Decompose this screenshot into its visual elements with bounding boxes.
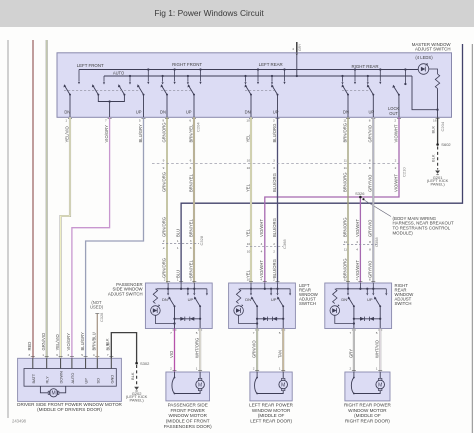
svg-text:VIO/WHT: VIO/WHT xyxy=(393,124,398,142)
svg-text:BLK: BLK xyxy=(130,372,135,380)
lockout switch xyxy=(398,94,400,96)
svg-text:7: 7 xyxy=(253,331,255,335)
passenger window adjust switch U2 internal bus xyxy=(156,288,207,290)
svg-text:6: 6 xyxy=(56,353,58,357)
svg-text:10: 10 xyxy=(247,166,251,170)
svg-text:GRY/VIO: GRY/VIO xyxy=(368,124,373,142)
svg-text:2: 2 xyxy=(350,367,352,371)
svg-text:MODULE): MODULE) xyxy=(393,231,414,236)
left rear window adjust switch U3 alternate contact drops xyxy=(270,289,272,293)
svg-text:9: 9 xyxy=(162,119,164,123)
svg-text:DN: DN xyxy=(162,297,168,302)
svg-text:LEFT REAR DOOR): LEFT REAR DOOR) xyxy=(250,419,292,424)
svg-text:(MIDDLE OF: (MIDDLE OF xyxy=(354,413,381,418)
svg-text:7: 7 xyxy=(105,119,107,123)
left rear window motor M3 pin numbers xyxy=(255,369,259,371)
right rear window adjust switch U4 box xyxy=(325,283,392,329)
wire RED battery feed xyxy=(32,40,34,358)
right rear window adjust switch U4 pin numbers xyxy=(346,281,350,283)
svg-text:8: 8 xyxy=(369,166,371,170)
svg-text:DN: DN xyxy=(341,297,347,302)
svg-text:6: 6 xyxy=(190,159,192,163)
svg-text:BRN/ORG: BRN/ORG xyxy=(342,172,347,192)
bus L2 down-leg to ground junction xyxy=(412,76,438,110)
svg-text:5: 5 xyxy=(81,353,83,357)
wire GRY right rear motor down xyxy=(353,329,355,373)
svg-text:10: 10 xyxy=(247,159,251,163)
wire right front DN to pin xyxy=(166,95,168,117)
left front AUTO contact drops xyxy=(103,76,105,82)
svg-text:PANEL): PANEL) xyxy=(130,398,145,403)
left front auto T join xyxy=(98,95,124,102)
svg-text:GRY/VIO: GRY/VIO xyxy=(368,219,373,237)
driver motor pin stubs xyxy=(32,358,34,368)
svg-text:BRN/BLU: BRN/BLU xyxy=(92,332,97,350)
svg-text:GRN/ORG: GRN/ORG xyxy=(161,217,166,237)
svg-text:TAN: TAN xyxy=(278,350,283,358)
callout line to body main wiring note xyxy=(365,200,392,216)
svg-text:11: 11 xyxy=(344,278,347,282)
wire WHT/ORG passenger motor up xyxy=(199,329,201,373)
left rear window adjust switch U3 DN switch xyxy=(256,305,258,307)
svg-text:AUTO: AUTO xyxy=(113,70,124,75)
svg-text:GRY: GRY xyxy=(348,349,353,358)
svg-text:4: 4 xyxy=(260,278,262,282)
svg-text:FRONT POWER: FRONT POWER xyxy=(171,408,206,413)
svg-text:S602: S602 xyxy=(441,142,451,147)
svg-text:5: 5 xyxy=(376,331,378,335)
svg-text:C328: C328 xyxy=(99,313,104,322)
wire left rear DN to pin xyxy=(250,95,252,117)
wire BLK dashed to ground xyxy=(437,147,439,170)
svg-text:3: 3 xyxy=(190,239,192,243)
left page border wire xyxy=(7,40,9,418)
left rear window adjust switch U3 pin numbers xyxy=(249,281,253,283)
right rear DN switch xyxy=(347,94,349,96)
right rear window adjust switch U4 internal bus xyxy=(336,288,387,290)
svg-text:2: 2 xyxy=(170,367,172,371)
wire left rear UP to pin xyxy=(277,95,279,117)
svg-text:BRN/YEL: BRN/YEL xyxy=(188,259,193,278)
svg-text:(4 LEDS): (4 LEDS) xyxy=(415,55,433,60)
svg-text:BATT: BATT xyxy=(31,373,36,383)
splice S602 xyxy=(436,143,439,146)
svg-text:PASSENGERS DOOR): PASSENGERS DOOR) xyxy=(164,424,212,429)
right page border line xyxy=(471,44,473,433)
right rear window motor M4 box xyxy=(345,372,390,401)
wire VIO/WHT branch to right rear xyxy=(359,197,361,283)
svg-text:C368: C368 xyxy=(282,239,287,249)
driver motor pin numbers xyxy=(31,356,35,358)
right rear window adjust switch U4 alternate contact drops xyxy=(366,289,368,293)
svg-text:UP: UP xyxy=(367,297,373,302)
left front UP switch xyxy=(143,94,145,96)
svg-text:BLU/ORG: BLU/ORG xyxy=(272,124,277,143)
wire BRN/ORG right rear DN xyxy=(347,117,349,283)
svg-text:UP: UP xyxy=(271,297,277,302)
power feed stub into master switch xyxy=(296,42,298,53)
right rear window adjust switch U4 output wires and diodes xyxy=(354,306,380,328)
svg-text:2: 2 xyxy=(163,239,165,243)
svg-text:16: 16 xyxy=(433,119,437,123)
svg-text:1: 1 xyxy=(376,367,378,371)
svg-text:4: 4 xyxy=(356,240,358,244)
svg-text:BRN/ORG: BRN/ORG xyxy=(342,258,347,278)
svg-text:BLK: BLK xyxy=(431,126,436,134)
svg-text:10: 10 xyxy=(247,250,251,254)
svg-text:4: 4 xyxy=(356,247,358,251)
left front DN switch xyxy=(69,94,71,96)
svg-text:YEL/VIO: YEL/VIO xyxy=(55,333,60,350)
resistor to ground pin wire xyxy=(437,89,439,118)
svg-text:AUTO: AUTO xyxy=(70,373,75,384)
svg-text:LEFT FRONT: LEFT FRONT xyxy=(77,63,104,68)
connector C368 left rear door xyxy=(246,246,283,248)
svg-text:2: 2 xyxy=(273,250,275,254)
svg-text:10: 10 xyxy=(247,242,251,246)
left front auto switch b xyxy=(123,94,125,96)
svg-text:2: 2 xyxy=(68,353,70,357)
switch link dashes xyxy=(64,89,140,91)
svg-text:DN: DN xyxy=(64,109,70,114)
wire YEL left rear DN xyxy=(250,117,252,283)
svg-text:C328: C328 xyxy=(199,235,204,245)
right rear contact drops xyxy=(342,76,344,82)
svg-text:VIO/WHT: VIO/WHT xyxy=(259,219,264,237)
svg-text:WINDOW MOTOR: WINDOW MOTOR xyxy=(348,408,387,413)
svg-text:RLY: RLY xyxy=(45,376,50,384)
svg-text:5: 5 xyxy=(279,331,281,335)
left rear window motor M3 box xyxy=(250,372,292,401)
svg-text:BLU/GRY: BLU/GRY xyxy=(138,124,143,143)
svg-text:8: 8 xyxy=(369,240,371,244)
svg-text:S326: S326 xyxy=(355,191,365,196)
svg-text:RIGHT FRONT: RIGHT FRONT xyxy=(172,62,202,67)
svg-text:5: 5 xyxy=(196,331,198,335)
svg-text:YEL: YEL xyxy=(245,183,250,192)
svg-text:2: 2 xyxy=(395,166,397,170)
left rear window adjust switch U3 output wires and diodes xyxy=(257,306,283,328)
svg-text:BRN/ORG: BRN/ORG xyxy=(342,217,347,237)
wire left front UP to pin xyxy=(143,95,145,117)
svg-text:ADJUST SWITCH: ADJUST SWITCH xyxy=(108,291,143,296)
driver motor inner box xyxy=(24,369,116,387)
svg-text:2: 2 xyxy=(253,367,255,371)
wire BRN/BLU not used stub xyxy=(96,314,98,359)
wire right rear UP to pin xyxy=(372,95,374,117)
splice S302 xyxy=(135,362,138,365)
svg-text:WHT/ORG: WHT/ORG xyxy=(195,338,200,358)
passenger window adjust switch U2 LED and resistor xyxy=(153,289,157,304)
left rear window adjust switch U3 input drops xyxy=(250,283,252,293)
svg-text:RIGHT REAR DOOR): RIGHT REAR DOOR) xyxy=(345,419,390,424)
left rear DN switch xyxy=(250,94,252,96)
svg-text:RIGHT REAR: RIGHT REAR xyxy=(352,64,379,69)
right front UP switch xyxy=(193,94,195,96)
left rear UP switch xyxy=(277,94,279,96)
svg-text:4: 4 xyxy=(261,250,263,254)
svg-text:8: 8 xyxy=(369,278,371,282)
svg-text:11: 11 xyxy=(344,240,347,244)
svg-text:DOWN: DOWN xyxy=(59,371,64,384)
wire GRY/VIO right rear UP xyxy=(372,117,374,283)
svg-text:S302: S302 xyxy=(140,361,150,366)
wire left front DN to pin xyxy=(69,95,71,117)
svg-text:5: 5 xyxy=(139,119,141,123)
svg-text:YEL: YEL xyxy=(245,228,250,237)
wire BLU/ORG left rear UP xyxy=(277,117,279,283)
bus L1 (battery bus) xyxy=(79,69,418,71)
svg-text:YEL/VIO: YEL/VIO xyxy=(64,125,69,142)
wire GRN/VIO left rear motor down xyxy=(256,329,258,373)
left front auto switch a xyxy=(97,94,99,96)
svg-text:BLU/GRY: BLU/GRY xyxy=(80,332,85,351)
svg-text:(MIDDLE OF DRIVERS DOOR): (MIDDLE OF DRIVERS DOOR) xyxy=(37,407,102,412)
svg-text:DN: DN xyxy=(245,109,251,114)
svg-text:M: M xyxy=(198,382,202,388)
svg-text:USED): USED) xyxy=(90,305,104,310)
svg-text:3: 3 xyxy=(273,166,275,170)
svg-text:GRY: GRY xyxy=(298,43,302,51)
svg-text:GRN/VIO: GRN/VIO xyxy=(252,340,257,358)
svg-text:C358: C358 xyxy=(374,237,379,247)
right front DN switch xyxy=(166,94,168,96)
svg-text:2: 2 xyxy=(273,278,275,282)
svg-text:1: 1 xyxy=(65,119,67,123)
svg-text:3: 3 xyxy=(273,119,275,123)
svg-text:DN: DN xyxy=(160,109,166,114)
svg-text:ADJUST SWITCH: ADJUST SWITCH xyxy=(415,47,451,52)
wire GRN/VIO relay feed xyxy=(46,40,48,358)
left rear window adjust switch U3 LED and resistor xyxy=(236,289,240,304)
svg-text:VIO/WHT: VIO/WHT xyxy=(259,260,264,278)
svg-text:C210: C210 xyxy=(401,167,406,177)
passenger window adjust switch U2 DN switch xyxy=(174,305,176,307)
svg-text:OUT: OUT xyxy=(389,111,398,116)
svg-text:WHT/VIO: WHT/VIO xyxy=(375,339,380,358)
svg-text:3: 3 xyxy=(190,246,192,250)
svg-text:DN: DN xyxy=(245,297,251,302)
svg-text:2: 2 xyxy=(395,159,397,163)
right rear window adjust switch U4 input drops xyxy=(347,283,349,293)
wire right rear DN to pin xyxy=(347,95,349,117)
wire BRN/YEL passenger UP xyxy=(193,117,195,283)
master switch pin numbers xyxy=(68,118,72,120)
svg-text:10: 10 xyxy=(246,119,250,123)
svg-text:3: 3 xyxy=(273,159,275,163)
left rear window adjust switch U3 box xyxy=(229,283,296,329)
svg-text:DN: DN xyxy=(343,109,349,114)
svg-text:UP: UP xyxy=(273,109,279,114)
svg-text:2: 2 xyxy=(163,246,165,250)
wire VIO passenger motor down xyxy=(174,329,176,373)
resistor in master switch xyxy=(435,74,439,89)
svg-text:8: 8 xyxy=(369,247,371,251)
driver motor M symbol xyxy=(40,386,48,393)
svg-text:VIO/WHT: VIO/WHT xyxy=(355,219,360,237)
svg-text:11: 11 xyxy=(343,119,346,123)
wire YEL/VIO driver DOWN xyxy=(61,117,70,358)
svg-text:WINDOW MOTOR: WINDOW MOTOR xyxy=(168,413,207,418)
passenger window adjust switch U2 alternate contact drops xyxy=(187,289,189,293)
svg-text:VIO/WHT: VIO/WHT xyxy=(393,174,398,192)
svg-text:VIO/GRY: VIO/GRY xyxy=(104,125,109,143)
svg-text:GRN/VIO: GRN/VIO xyxy=(41,332,46,350)
wire GRN/ORG passenger DN xyxy=(166,117,168,283)
svg-text:BRN/YEL: BRN/YEL xyxy=(188,173,193,192)
svg-text:11: 11 xyxy=(344,159,347,163)
svg-text:UP: UP xyxy=(84,378,89,384)
right rear UP switch xyxy=(372,94,374,96)
right rear window motor M4 internals xyxy=(353,372,355,378)
svg-text:8: 8 xyxy=(369,159,371,163)
svg-text:3: 3 xyxy=(28,353,30,357)
wire VIO/WHT rear switch feed xyxy=(265,117,399,283)
wire WHT/VIO right rear motor up xyxy=(379,329,381,373)
svg-text:SD: SD xyxy=(95,378,100,384)
left rear window adjust switch U3 internal bus xyxy=(240,288,291,290)
svg-text:UP: UP xyxy=(188,297,194,302)
svg-text:BLK: BLK xyxy=(431,154,436,162)
svg-text:M: M xyxy=(281,382,285,388)
passenger window adjust switch U2 input drops xyxy=(167,283,169,293)
svg-text:GRY/VIO: GRY/VIO xyxy=(368,260,373,278)
svg-text:LEFT REAR POWER: LEFT REAR POWER xyxy=(249,403,294,408)
svg-text:VIO: VIO xyxy=(169,350,174,358)
svg-text:BRN/ORG: BRN/ORG xyxy=(342,123,347,143)
wire BLK master switch ground xyxy=(437,117,439,144)
wire BLU master to passenger switch xyxy=(181,44,462,283)
right rear window adjust switch U4 LED and resistor xyxy=(333,289,337,304)
svg-text:SWITCH: SWITCH xyxy=(395,301,412,306)
passenger window adjust switch U2 box xyxy=(145,283,212,329)
ground G202 xyxy=(134,387,139,390)
svg-text:PASSENGER SIDE: PASSENGER SIDE xyxy=(168,403,208,408)
lockout switch output to pin wire xyxy=(398,95,400,117)
passenger window adjust switch U2 pin numbers xyxy=(166,281,170,283)
svg-text:BLK: BLK xyxy=(105,338,110,346)
wire BLU/GRY driver UP xyxy=(86,117,144,358)
left rear window motor M3 internals xyxy=(256,372,258,378)
svg-text:GRN/ORG: GRN/ORG xyxy=(161,122,166,142)
left front UP fixed contact drop xyxy=(147,70,149,82)
svg-text:6: 6 xyxy=(189,119,191,123)
svg-text:1: 1 xyxy=(177,278,179,282)
svg-text:11: 11 xyxy=(344,247,347,251)
header bar xyxy=(0,0,474,27)
svg-text:2: 2 xyxy=(394,119,396,123)
wire right front UP to pin xyxy=(193,95,195,117)
svg-text:C204: C204 xyxy=(196,122,201,132)
svg-text:BLU/ORG: BLU/ORG xyxy=(272,218,277,237)
svg-text:BLU/ORG: BLU/ORG xyxy=(272,173,277,192)
svg-text:2: 2 xyxy=(273,242,275,246)
wire TAN left rear motor up xyxy=(282,329,284,373)
svg-text:8: 8 xyxy=(369,119,371,123)
wire BLK driver motor ground xyxy=(111,333,136,364)
svg-text:RED: RED xyxy=(27,342,32,351)
right front contact drops xyxy=(162,76,164,82)
svg-text:WINDOW MOTOR: WINDOW MOTOR xyxy=(252,408,291,413)
svg-text:(MIDDLE OF FRONT: (MIDDLE OF FRONT xyxy=(166,419,210,424)
splice S326 xyxy=(359,196,362,199)
svg-text:2: 2 xyxy=(164,278,166,282)
svg-text:GND: GND xyxy=(109,375,114,384)
bus L2 (auto bus) xyxy=(104,75,412,77)
svg-text:9: 9 xyxy=(163,166,165,170)
svg-text:(MIDDLE OF: (MIDDLE OF xyxy=(258,413,285,418)
passenger window adjust switch U2 output wires and diodes xyxy=(175,306,201,328)
svg-text:6: 6 xyxy=(190,166,192,170)
svg-text:1: 1 xyxy=(196,367,198,371)
svg-text:BLU/ORG: BLU/ORG xyxy=(272,259,277,278)
svg-text:YEL: YEL xyxy=(245,134,250,143)
svg-text:BRN/YEL: BRN/YEL xyxy=(188,124,193,143)
svg-text:1: 1 xyxy=(42,353,44,357)
svg-text:SWITCH: SWITCH xyxy=(299,301,316,306)
svg-text:GRY/VIO: GRY/VIO xyxy=(368,174,373,192)
svg-text:4: 4 xyxy=(93,353,95,357)
svg-text:4: 4 xyxy=(261,242,263,246)
svg-text:BRN/YEL: BRN/YEL xyxy=(188,218,193,237)
svg-text:1: 1 xyxy=(279,367,281,371)
connector C210 xyxy=(152,162,399,164)
wire VIO/GRY driver AUTO xyxy=(72,117,110,358)
right rear window motor M4 pin numbers xyxy=(352,369,356,371)
svg-text:UP: UP xyxy=(186,109,192,114)
svg-text:1: 1 xyxy=(177,246,179,250)
svg-text:9: 9 xyxy=(163,159,165,163)
wire BLK dashed to ground G202 xyxy=(136,365,138,386)
svg-text:Fig 1: Power Windows Circuit: Fig 1: Power Windows Circuit xyxy=(154,8,264,18)
svg-text:1: 1 xyxy=(177,239,179,243)
passenger window motor M2 pin numbers xyxy=(173,369,177,371)
svg-text:VIO/GRY: VIO/GRY xyxy=(66,333,71,351)
svg-text:3: 3 xyxy=(190,278,192,282)
svg-text:11: 11 xyxy=(344,166,347,170)
svg-text:RIGHT REAR POWER: RIGHT REAR POWER xyxy=(344,403,392,408)
svg-text:UP: UP xyxy=(368,109,374,114)
svg-text:10: 10 xyxy=(247,278,251,282)
ground G201 xyxy=(435,171,440,174)
svg-text:PANEL): PANEL) xyxy=(431,182,446,187)
passenger window motor M2 box xyxy=(166,372,210,401)
svg-text:BLU: BLU xyxy=(176,229,181,237)
svg-text:7: 7 xyxy=(350,331,352,335)
svg-text:7: 7 xyxy=(107,353,109,357)
passenger window motor M2 internals xyxy=(174,372,176,378)
svg-text:GRN/ORG: GRN/ORG xyxy=(161,258,166,278)
svg-text:VIO/WHT: VIO/WHT xyxy=(355,260,360,278)
right rear window adjust switch U4 DN switch xyxy=(353,305,355,307)
svg-text:243498: 243498 xyxy=(12,419,27,424)
left front DN fixed contact drop xyxy=(78,70,80,82)
connector C358 right rear door xyxy=(343,244,378,246)
svg-text:7: 7 xyxy=(170,331,172,335)
connector C328 passenger door xyxy=(162,242,199,244)
svg-text:GRN/ORG: GRN/ORG xyxy=(161,172,166,192)
svg-text:M: M xyxy=(378,382,382,388)
svg-text:LEFT REAR: LEFT REAR xyxy=(259,62,283,67)
driver side motor box M1 outer xyxy=(18,358,122,401)
master window adjust switch box U1 xyxy=(57,53,452,118)
left rear contact drops xyxy=(245,76,247,82)
lockout contact drop xyxy=(404,70,406,85)
svg-text:C204: C204 xyxy=(440,121,445,131)
svg-text:UP: UP xyxy=(136,109,142,114)
svg-text:M: M xyxy=(52,391,56,397)
svg-text:4: 4 xyxy=(292,47,294,51)
